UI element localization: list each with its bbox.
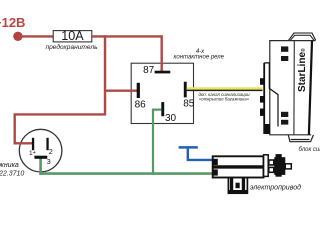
svg-text:10А: 10А xyxy=(61,29,84,43)
switch pin 3 xyxy=(34,156,47,159)
alarm unit right thick edge xyxy=(309,41,312,135)
actuator fork rod xyxy=(228,177,247,193)
wire fuse to relay pin 87 (red) xyxy=(92,36,162,71)
svg-text:блок сигнализации: блок сигнализации xyxy=(299,147,320,153)
actuator connector pin bottom xyxy=(269,167,274,172)
alarm unit body xyxy=(270,41,316,135)
blue terminal bar xyxy=(179,146,198,149)
svg-text:2: 2 xyxy=(49,147,53,156)
svg-text:предохранитель: предохранитель xyxy=(45,43,98,51)
wire blue to actuator xyxy=(188,147,213,160)
actuator connector pin top xyxy=(269,160,274,165)
relay pin 30 xyxy=(161,102,164,116)
svg-text:86: 86 xyxy=(135,100,147,111)
actuator plug stub xyxy=(285,164,291,169)
wire node to fuse (red) xyxy=(20,35,54,37)
svg-text:контактное реле: контактное реле xyxy=(174,55,225,61)
actuator body bottom band xyxy=(213,168,264,178)
wire green bus switch to actuator xyxy=(39,172,213,175)
trunk switch connector circle xyxy=(19,129,62,172)
actuator body top band xyxy=(213,156,264,166)
alarm unit body tabs xyxy=(281,46,288,124)
wire relay 85 to alarm (yellow) xyxy=(187,88,263,90)
switch pin 1 xyxy=(32,138,34,150)
alarm unit band line xyxy=(293,41,295,135)
svg-text:«открытие багажника»: «открытие багажника» xyxy=(199,96,250,101)
svg-text:85: 85 xyxy=(183,99,195,110)
relay pin 87 xyxy=(155,71,171,74)
relay pin 86 xyxy=(137,83,140,98)
actuator terminal bottom xyxy=(213,169,217,175)
wire to switch pin 1 (red) xyxy=(15,114,106,143)
alarm connector pins xyxy=(260,78,270,134)
svg-text:30: 30 xyxy=(165,113,177,124)
wire pin 30 to trunk bus (green) xyxy=(153,110,162,175)
fuse F 10A xyxy=(53,29,92,43)
yellow wire label xyxy=(198,92,250,101)
alarm connector block xyxy=(264,63,278,134)
node +12V terminal dot xyxy=(13,32,22,41)
alarm unit roof xyxy=(289,33,316,40)
svg-text:+12В: +12В xyxy=(0,15,25,30)
svg-text:87: 87 xyxy=(143,65,155,76)
wire junction down (red) xyxy=(104,35,106,115)
wire switch pin 3 down (green) xyxy=(39,158,42,175)
actuator plug xyxy=(274,154,285,177)
svg-text:багажника: багажника xyxy=(0,161,19,169)
alarm unit roof inner xyxy=(290,35,314,40)
svg-text:электропривод: электропривод xyxy=(250,183,301,191)
svg-text:StarLine®: StarLine® xyxy=(297,48,308,92)
relay pin 85 xyxy=(184,82,187,98)
svg-text:3: 3 xyxy=(47,157,51,166)
switch pin 2 xyxy=(46,138,48,150)
relay K1 box xyxy=(131,63,193,123)
actuator end cap xyxy=(264,155,269,177)
svg-text:22.3710: 22.3710 xyxy=(0,170,24,177)
wire branch to relay pin 86 (red) xyxy=(104,89,137,91)
alarm unit bottom skirt xyxy=(288,135,313,142)
actuator terminal top xyxy=(213,159,217,165)
relay title 4-х контактное реле xyxy=(174,49,225,61)
